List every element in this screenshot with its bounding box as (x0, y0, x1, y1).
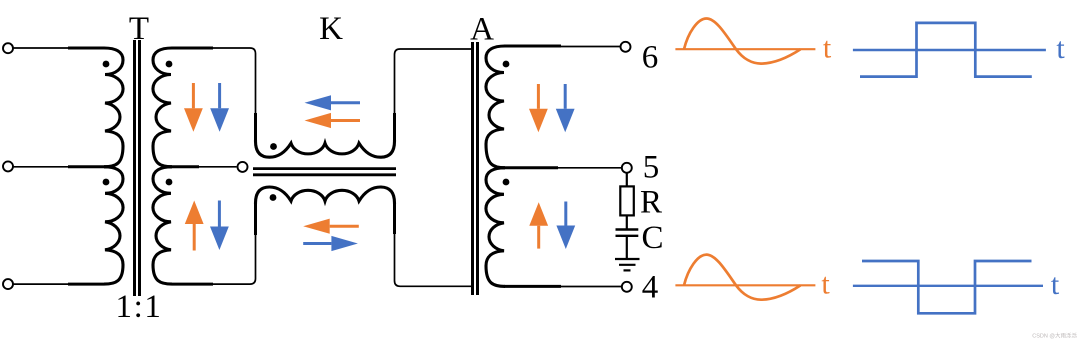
svg-text:t: t (821, 268, 830, 301)
svg-text:6: 6 (642, 40, 659, 76)
svg-text:t: t (1056, 32, 1065, 65)
svg-text:A: A (470, 12, 494, 48)
svg-text:5: 5 (643, 150, 660, 186)
svg-text:1:1: 1:1 (116, 289, 163, 325)
svg-text:C: C (641, 220, 663, 256)
svg-text:K: K (319, 11, 343, 47)
svg-text:CSDN @大雨泺泺: CSDN @大雨泺泺 (1032, 332, 1077, 340)
svg-text:t: t (823, 32, 832, 65)
svg-text:4: 4 (642, 270, 659, 306)
svg-text:T: T (129, 11, 149, 47)
svg-text:t: t (1051, 268, 1060, 301)
svg-text:R: R (640, 185, 662, 221)
